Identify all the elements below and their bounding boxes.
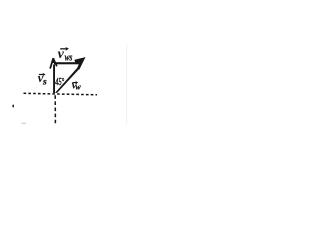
svg-text:w: w	[76, 82, 82, 92]
svg-text:v: v	[58, 47, 65, 62]
svg-text:ws: ws	[65, 52, 73, 64]
svg-text:s: s	[42, 78, 47, 88]
svg-text:45°: 45°	[55, 77, 64, 88]
